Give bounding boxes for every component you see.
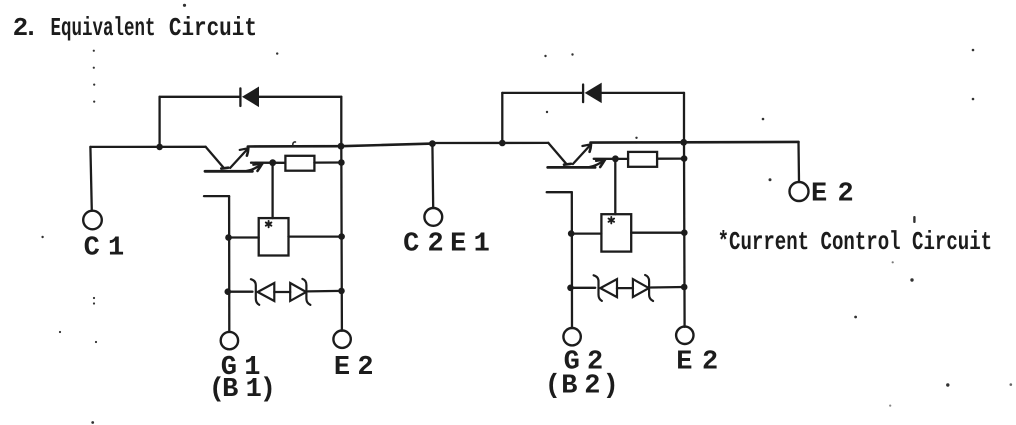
junction node: collector line meets diode loop	[338, 143, 345, 150]
junction node C2E1 tap	[429, 140, 436, 147]
wire E2 output drop	[797, 142, 800, 182]
wire diode loop left vertical (Q2)	[501, 93, 503, 143]
wire control box top lead	[271, 163, 273, 218]
ZD1 left cathode S-bar	[251, 279, 259, 305]
Q1 emitter curve	[247, 164, 262, 171]
diode D2 cathode bar	[582, 85, 584, 103]
junction node: gate bus / U2 left	[568, 230, 575, 237]
wire resistor R2 right lead	[657, 157, 684, 159]
svg-text:2.: 2.	[13, 13, 39, 43]
svg-text:E2: E2	[334, 353, 374, 383]
wire collector horizontal from C2E1 to transistor Q2	[433, 142, 548, 144]
wire resistor right lead	[314, 161, 341, 163]
diode D1 cathode bar	[239, 88, 241, 106]
junction node: collector line meets diode loop (Q2)	[680, 139, 687, 146]
junction node: emitter bus / zener row	[338, 288, 345, 295]
wire U1 right lead	[289, 235, 342, 237]
wire C1 riser	[90, 147, 91, 211]
ZD1 left wire	[228, 291, 253, 293]
junction node: gate bus / zener row (Q2)	[567, 285, 574, 292]
Q2 collector diagonal	[548, 143, 566, 164]
wire emitter bus vertical down to E terminal	[340, 146, 343, 331]
transistor Q1 (darlington symbol)	[205, 147, 262, 172]
terminal G2 circle	[563, 328, 580, 345]
Q2 base bar	[548, 166, 595, 169]
wire diode loop top right (Q2)	[601, 92, 684, 94]
Q2 internal arrow shaft	[573, 145, 591, 165]
Q1 collector diagonal	[206, 147, 224, 168]
ZD1 right wire	[308, 290, 342, 293]
junction node: emitter bus / zener row (Q2)	[681, 284, 688, 291]
wire diode loop top left	[160, 96, 241, 98]
wire gate lead horizontal	[204, 195, 229, 197]
wire diode loop top right	[259, 96, 342, 98]
svg-text:C1: C1	[84, 234, 125, 264]
transistor Q2 (darlington symbol)	[548, 143, 605, 168]
ZD2 middle wire	[617, 287, 633, 289]
terminal E2 circle (right unit)	[676, 327, 693, 344]
ZD2 right cathode S-bar	[645, 275, 653, 301]
terminal E2 circle (output, far right)	[790, 182, 809, 201]
junction node: gate bus / U1 left	[225, 234, 232, 241]
left IGBT unit Q1 section	[90, 87, 373, 405]
svg-text:(B1): (B1)	[209, 375, 276, 405]
junction node: emitter bus / U1 right	[338, 233, 345, 240]
zener pair ZD2 between gate and emitter	[567, 275, 687, 301]
ZD2 left wire	[571, 287, 596, 289]
wire top rail from right unit to E2 output corner	[684, 141, 799, 144]
junction node: resistor to emitter bus	[338, 159, 345, 166]
wire U1 left lead	[229, 236, 259, 238]
junction node: diode loop tap on collector	[156, 144, 163, 151]
ZD1 left diode triangle	[258, 283, 275, 301]
Q2 emitter curve	[590, 160, 606, 167]
apostrophe speck above note text	[913, 216, 915, 223]
terminal G1 circle	[221, 332, 238, 349]
title text "2. Equivalent Circuit"	[13, 13, 257, 43]
Q1 collector foot dash	[221, 166, 228, 170]
ZD2 left cathode S-bar	[594, 275, 602, 301]
ZD2 left diode triangle	[600, 279, 617, 297]
junction node: diode loop tap on collector (Q2)	[499, 140, 506, 147]
terminal E2 circle (left unit)	[333, 331, 350, 348]
svg-text:E2: E2	[811, 180, 854, 210]
Q1 internal arrow barb down	[247, 148, 248, 155]
right IGBT unit Q2 section (translated copy)	[433, 84, 718, 402]
svg-text:(B2): (B2)	[545, 371, 619, 401]
svg-text:*Current Control Circuit: *Current Control Circuit	[718, 227, 993, 257]
terminal C2E1 circle	[424, 208, 442, 226]
small c-mark on collector rail	[293, 142, 296, 147]
terminal C1 circle	[83, 211, 102, 230]
Q1 base bar	[205, 170, 252, 173]
diode D2 body (filled triangle)	[586, 84, 602, 103]
wire control box top lead (U2)	[614, 159, 616, 214]
ZD2 right wire	[651, 286, 685, 289]
junction node: gate bus / zener row	[225, 288, 232, 295]
ZD1 right cathode S-bar	[302, 279, 310, 305]
wire top rail: collector bus from left unit to C2E1 node	[341, 144, 432, 147]
ZD1 right diode triangle	[290, 283, 306, 301]
svg-text:C2E1: C2E1	[403, 230, 490, 260]
wire emitter line to resistor R2	[594, 158, 628, 160]
svg-text:Equivalent: Equivalent	[51, 13, 156, 43]
Q1 internal arrow barb left	[240, 148, 249, 150]
ZD2 right diode triangle	[633, 279, 649, 297]
wire diode loop right vertical	[340, 97, 342, 147]
Q1 emitter arrow barb down	[258, 164, 263, 171]
resistor R2 (gate resistor box)	[628, 152, 657, 167]
wire diode loop right vertical (Q2)	[683, 93, 685, 143]
wire U2 right lead	[631, 232, 684, 234]
Q2 internal arrow barb left	[582, 144, 591, 146]
current control circuit box U2	[601, 214, 631, 251]
Q1 internal arrow shaft	[230, 148, 248, 168]
wire emitter bus vertical down to E terminal (Q2)	[683, 142, 686, 327]
junction node: emitter / control box tap	[269, 159, 276, 166]
resistor R1 (gate resistor box)	[285, 156, 314, 171]
wire gate lead horizontal (Q2)	[547, 191, 572, 193]
wire collector horizontal from C1 corner to transistor	[90, 146, 205, 148]
wire gate bus vertical down to G terminal	[228, 196, 230, 332]
Q1 emitter arrow barb left	[253, 164, 262, 165]
ZD1 middle wire	[274, 291, 290, 293]
junction node: resistor R2 to emitter bus	[681, 155, 688, 162]
wire diode loop top left (Q2)	[502, 92, 583, 94]
diode D1 body (filled triangle)	[243, 87, 259, 106]
svg-text:E2: E2	[676, 348, 718, 378]
current control circuit box U1	[259, 218, 289, 255]
wire C2E1 riser	[431, 144, 434, 208]
Q2 collector foot dash	[564, 163, 571, 167]
Q2 emitter arrow barb left	[596, 160, 605, 161]
wire gate bus vertical down to G2 terminal	[571, 192, 573, 328]
Q2 emitter arrow barb down	[600, 160, 605, 167]
junction node: emitter bus / U2 right	[681, 229, 688, 236]
wire diode loop left vertical	[158, 97, 160, 147]
svg-text:Circuit: Circuit	[169, 13, 257, 43]
wire collector/top rail to right	[248, 145, 341, 148]
Q2 internal arrow barb down	[590, 145, 591, 152]
zener pair ZD1 between gate and emitter	[225, 279, 345, 305]
asterisk marker inside U1	[266, 221, 272, 227]
wire emitter line to resistor	[251, 162, 285, 164]
wire collector/top rail to right (Q2)	[591, 141, 684, 144]
junction node: emitter / control box tap (Q2)	[612, 155, 619, 162]
asterisk marker inside U2	[609, 217, 615, 223]
wire U2 left lead	[571, 232, 601, 234]
